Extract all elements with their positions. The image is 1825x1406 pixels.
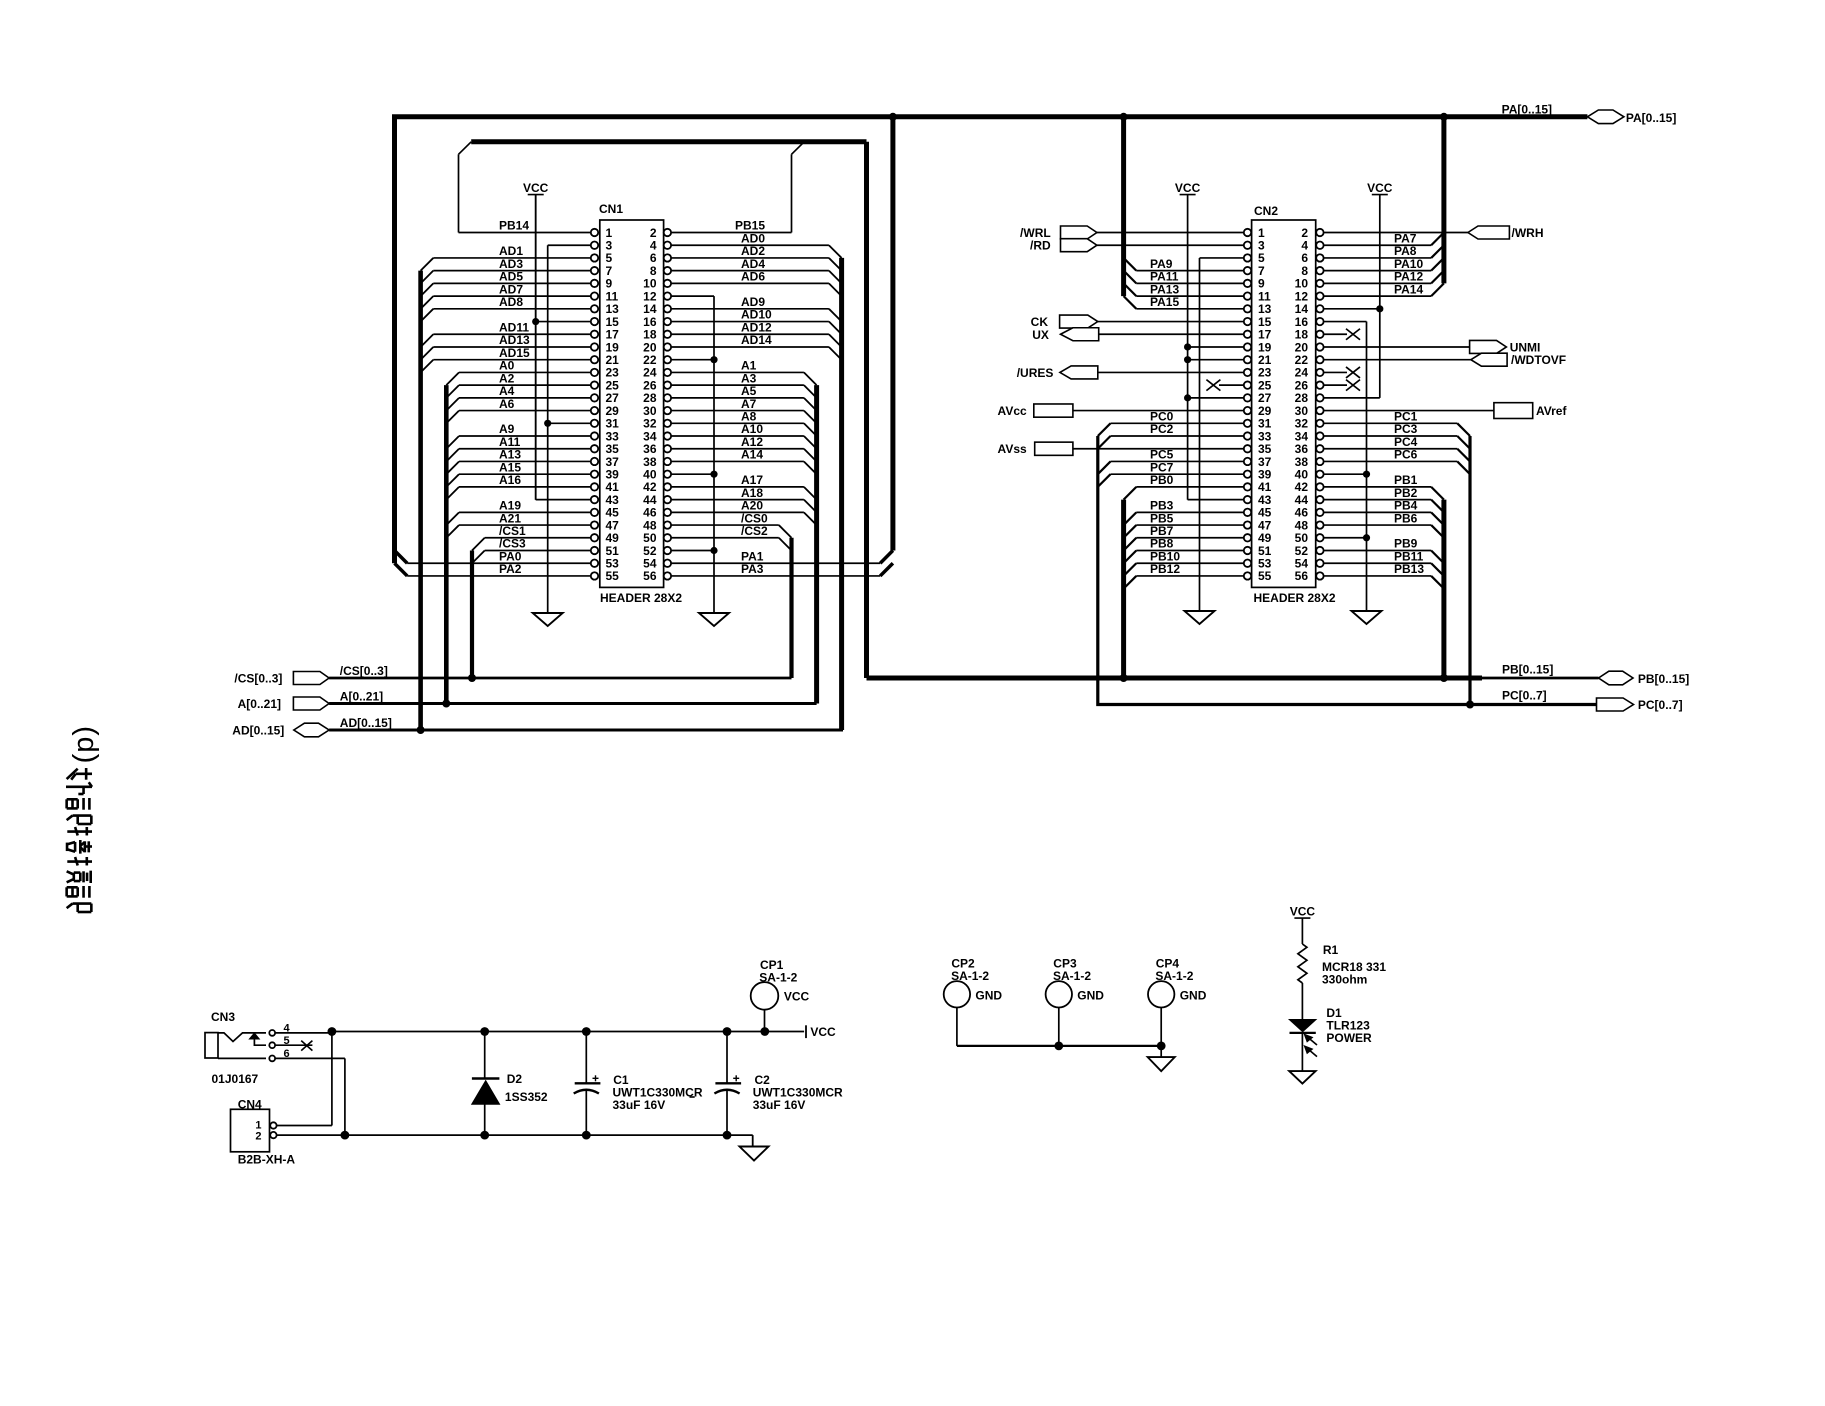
svg-text:VCC: VCC xyxy=(523,181,549,195)
svg-text:(d): (d) xyxy=(71,726,103,764)
svg-text:A[0..21]: A[0..21] xyxy=(340,690,383,704)
svg-text:PA3: PA3 xyxy=(741,562,764,576)
svg-text:/RD: /RD xyxy=(1030,239,1051,253)
svg-text:SA-1-2: SA-1-2 xyxy=(759,971,797,985)
svg-text:/WDTOVF: /WDTOVF xyxy=(1511,353,1566,367)
svg-text:VCC: VCC xyxy=(810,1025,836,1039)
svg-text:PB14: PB14 xyxy=(499,219,529,233)
svg-text:A16: A16 xyxy=(499,473,521,487)
svg-text:CN4: CN4 xyxy=(238,1098,262,1112)
svg-text:PB12: PB12 xyxy=(1150,562,1180,576)
svg-text:AVss: AVss xyxy=(998,442,1027,456)
svg-text:PA[0..15]: PA[0..15] xyxy=(1626,111,1676,125)
svg-text:PA14: PA14 xyxy=(1394,282,1423,296)
svg-text:PA15: PA15 xyxy=(1150,295,1179,309)
svg-text:HEADER 28X2: HEADER 28X2 xyxy=(600,591,682,605)
svg-text:/CS[0..3]: /CS[0..3] xyxy=(234,672,282,686)
svg-text:PC6: PC6 xyxy=(1394,448,1418,462)
svg-text:R1: R1 xyxy=(1323,943,1339,957)
svg-text:/WRH: /WRH xyxy=(1512,226,1544,240)
svg-text:VCC: VCC xyxy=(1175,181,1201,195)
svg-text:/CS2: /CS2 xyxy=(741,524,768,538)
svg-text:56: 56 xyxy=(643,569,657,583)
svg-text:GND: GND xyxy=(1077,989,1104,1003)
svg-text:D2: D2 xyxy=(507,1072,523,1086)
svg-text:55: 55 xyxy=(606,569,620,583)
svg-text:PB[0..15]: PB[0..15] xyxy=(1502,663,1553,677)
svg-text:PB6: PB6 xyxy=(1394,511,1418,525)
svg-text:PA2: PA2 xyxy=(499,562,522,576)
svg-text:AD[0..15]: AD[0..15] xyxy=(340,716,392,730)
svg-text:POWER: POWER xyxy=(1326,1031,1372,1045)
svg-text:AD6: AD6 xyxy=(741,270,765,284)
svg-text:SA-1-2: SA-1-2 xyxy=(1155,969,1193,983)
svg-text:33uF 16V: 33uF 16V xyxy=(613,1098,666,1112)
svg-text:A14: A14 xyxy=(741,448,763,462)
svg-text:CN1: CN1 xyxy=(599,202,623,216)
svg-text:CN2: CN2 xyxy=(1254,204,1278,218)
svg-text:330ohm: 330ohm xyxy=(1322,973,1367,987)
svg-text:GND: GND xyxy=(1180,989,1207,1003)
svg-text:SA-1-2: SA-1-2 xyxy=(951,969,989,983)
svg-text:PA[0..15]: PA[0..15] xyxy=(1502,103,1552,117)
svg-text:PC[0..7]: PC[0..7] xyxy=(1638,698,1683,712)
svg-text:AD14: AD14 xyxy=(741,333,772,347)
svg-text:2: 2 xyxy=(255,1131,261,1143)
svg-text:AD[0..15]: AD[0..15] xyxy=(232,724,284,738)
svg-text:PB0: PB0 xyxy=(1150,473,1174,487)
svg-text:UX: UX xyxy=(1032,328,1049,342)
svg-text:AD8: AD8 xyxy=(499,295,523,309)
svg-text:55: 55 xyxy=(1258,569,1272,583)
svg-text:A6: A6 xyxy=(499,397,515,411)
svg-text:56: 56 xyxy=(1295,569,1309,583)
svg-text:SA-1-2: SA-1-2 xyxy=(1053,969,1091,983)
svg-text:HEADER 28X2: HEADER 28X2 xyxy=(1254,591,1336,605)
svg-text:VCC: VCC xyxy=(1367,181,1393,195)
svg-text:01J0167: 01J0167 xyxy=(212,1072,259,1086)
svg-text:1SS352: 1SS352 xyxy=(505,1090,548,1104)
svg-text:PB[0..15]: PB[0..15] xyxy=(1638,672,1689,686)
svg-text:CN3: CN3 xyxy=(211,1010,235,1024)
svg-text:A[0..21]: A[0..21] xyxy=(238,697,281,711)
svg-text:/CS[0..3]: /CS[0..3] xyxy=(340,664,388,678)
svg-text:AVref: AVref xyxy=(1536,404,1567,418)
svg-text:VCC: VCC xyxy=(784,990,810,1004)
svg-text:PC2: PC2 xyxy=(1150,422,1174,436)
svg-text:AVcc: AVcc xyxy=(998,404,1027,418)
svg-text:VCC: VCC xyxy=(1290,905,1316,919)
svg-text:PB13: PB13 xyxy=(1394,562,1424,576)
svg-text:33uF 16V: 33uF 16V xyxy=(753,1098,806,1112)
svg-text:/URES: /URES xyxy=(1017,366,1054,380)
svg-text:B2B-XH-A: B2B-XH-A xyxy=(238,1153,296,1167)
svg-text:PC[0..7]: PC[0..7] xyxy=(1502,689,1547,703)
svg-text:GND: GND xyxy=(975,989,1002,1003)
